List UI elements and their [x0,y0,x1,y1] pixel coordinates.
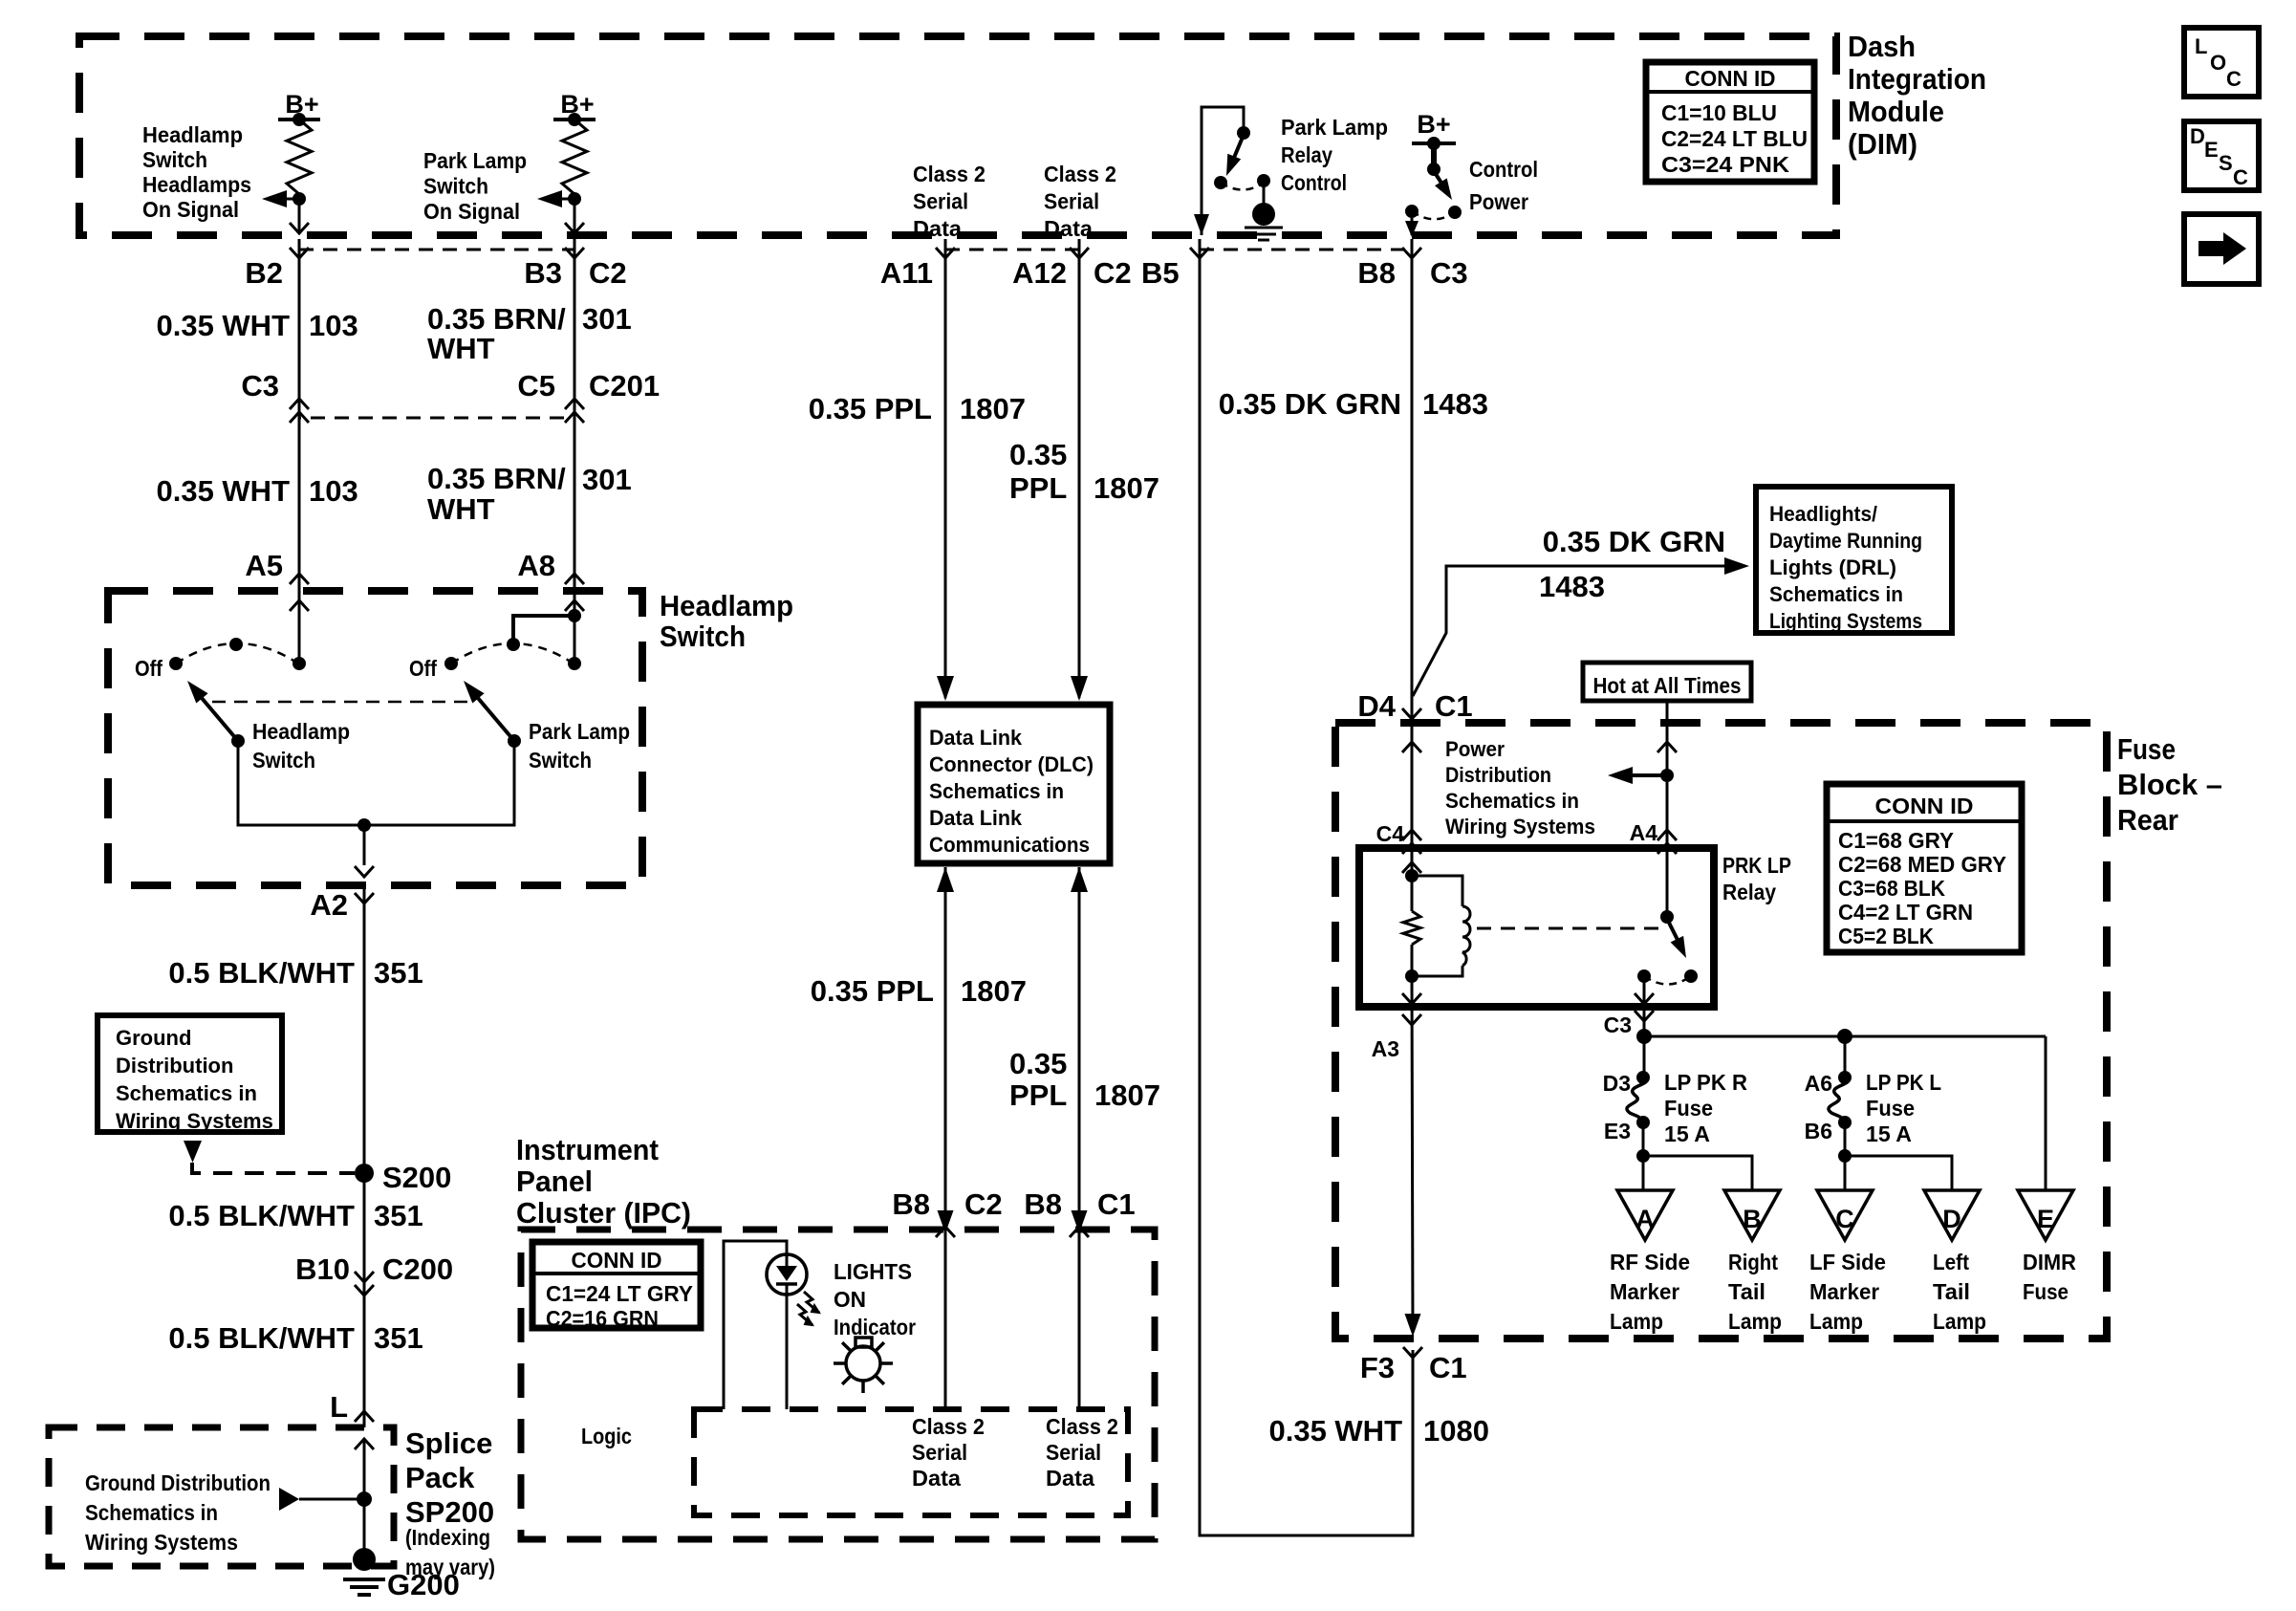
branch wire to DRL reference with arrow [1413,566,1726,696]
logic inner dashed box [694,1409,1128,1515]
svg-text:C200: C200 [382,1252,453,1286]
switch blade: headlamp switch [196,691,238,741]
svg-text:CONN ID: CONN ID [1875,794,1974,818]
svg-text:C201: C201 [589,369,660,403]
relay coil branch wires [1402,862,1421,873]
thin dashed connector line at A11/A12 [945,249,1079,251]
ground symbol: relay control reference [1263,181,1266,205]
wire: relay A3 output down to fuse block F3 [1402,1014,1421,1025]
svg-text:B10: B10 [295,1252,350,1286]
connector table: IPC CONN ID [532,1242,701,1328]
svg-text:E: E [2037,1205,2054,1233]
svg-text:B+: B+ [1417,110,1450,139]
wire: 0.5 BLK/WHT 351 from A2 to S200 [363,889,366,1173]
svg-text:C3: C3 [1604,1012,1632,1037]
svg-text:B: B [1743,1205,1762,1233]
svg-text:0.5 BLK/WHT: 0.5 BLK/WHT [168,956,355,990]
mechanical link dashed line between switches [212,701,473,704]
svg-text:1807: 1807 [960,392,1026,425]
LED emission arrows [804,1292,819,1313]
output triangle E [2018,1190,2073,1240]
svg-text:A8: A8 [517,549,555,582]
svg-text:CONN ID: CONN ID [1685,66,1776,91]
connector chevrons at C200 [355,1272,374,1282]
switch blade: relay control [1231,135,1244,164]
relay coil [1412,876,1462,906]
switch: Control Power inside DIM [1431,143,1437,169]
svg-text:0.5 BLK/WHT: 0.5 BLK/WHT [168,1199,355,1232]
svg-text:B8: B8 [1357,256,1396,290]
module box: Instrument Panel Cluster dashed outline [521,1230,1155,1539]
connector: inline dashed connector box C200/C201 between DIM and headlamp switch [299,250,574,418]
contact dots and throw arc: control power switch [1405,205,1419,218]
svg-text:1807: 1807 [1094,1078,1160,1112]
svg-text:B8: B8 [892,1187,930,1221]
svg-text:0.35 WHT: 0.35 WHT [1268,1414,1402,1448]
svg-text:0.35 WHT: 0.35 WHT [156,474,290,508]
LED symbol: lights on indicator [767,1254,807,1295]
LED indicator circuit wires [724,1241,787,1409]
wire: class 2 serial data A12 to DLC [1070,248,1089,258]
wire: DIMR fuse feed [2045,1036,2047,1190]
svg-text:A4: A4 [1630,820,1658,845]
component box: splice pack dashed outline [49,1427,394,1566]
svg-text:301: 301 [582,463,632,496]
svg-text:E3: E3 [1604,1119,1631,1143]
wire: L-link from A8 to park lamp contacts [568,609,581,622]
svg-text:Logic: Logic [581,1424,632,1448]
reference box: Data Link Connector (DLC) Schematics in Data Link Communications [918,705,1110,863]
relay contact dots and throw arc [1637,969,1651,983]
svg-text:1807: 1807 [961,974,1027,1008]
resistor: headlamp switch pull-up [287,120,312,194]
resistor: park lamp switch pull-up [562,120,587,194]
fuse: LP PK L 15A (A6-B6) [1844,1036,1847,1078]
wire: relay output C3 to fuse bus [1635,1011,1654,1021]
svg-text:B6: B6 [1805,1119,1832,1143]
wire: 0.35 WHT 103 lower segment to A5 [298,401,301,664]
ground G200 [353,1548,376,1571]
svg-text:F3: F3 [1360,1351,1395,1384]
svg-text:0.5 BLK/WHT: 0.5 BLK/WHT [168,1321,355,1355]
icon box: DESC [2184,121,2259,190]
svg-text:103: 103 [309,309,358,342]
svg-text:C1: C1 [1429,1351,1467,1384]
wires to triangles C and D [1844,1156,1847,1190]
svg-text:351: 351 [374,1321,423,1355]
component box: Headlamp Switch dashed outline [108,591,642,885]
junction dot on park lamp signal [568,192,581,206]
svg-text:1080: 1080 [1423,1414,1489,1448]
wire: park lamp signal down to DIM edge [574,199,576,233]
wire into splice pack down to G200 [355,1439,374,1449]
wire: class 2 serial data A11 to DLC [936,248,955,258]
relay box: PRK LP Relay [1359,848,1714,1007]
svg-text:301: 301 [582,302,632,336]
icon box: forward arrow [2184,214,2259,284]
svg-text:HeadlampSwitchHeadlampsOn Sign: HeadlampSwitchHeadlampsOn Signal [142,122,251,222]
wire: A5 entry into headlamp switch [290,600,309,611]
module box: Dash Integration Module (DIM) dashed outline [79,36,1836,235]
wire: 0.5 BLK/WHT 351 to splice pack [363,1173,366,1411]
wire: switch commons joined to A2 [238,741,514,825]
svg-text:G200: G200 [387,1568,460,1601]
wire: DLC to IPC B8/C2 [937,867,954,892]
wire: headlamp signal down to DIM edge [298,199,301,233]
svg-text:C3: C3 [1430,256,1468,290]
junction dot on headlamp signal [292,192,306,206]
junction dot under LP PK L fuse [1838,1149,1852,1163]
switch blade: control power [1434,171,1446,190]
switch blade: park lamp switch [472,691,514,741]
output triangle B [1724,1190,1780,1240]
icon box: LOC [2184,28,2259,97]
relay switch pivot and blade [1660,910,1674,924]
svg-text:C5: C5 [517,369,555,403]
svg-text:0.35 DK GRN: 0.35 DK GRN [1219,387,1401,421]
svg-text:D4: D4 [1357,689,1396,723]
svg-text:A6: A6 [1805,1071,1832,1096]
svg-text:A: A [1635,1205,1655,1233]
wire: control power output down to DIM edge [1411,211,1414,235]
contact dots and throw arc: relay control switch [1214,176,1227,189]
wire: headlamp on-signal arrow to left [271,198,299,201]
svg-text:C2: C2 [1094,256,1132,290]
svg-text:1483: 1483 [1539,570,1605,603]
svg-text:C: C [1835,1205,1854,1233]
svg-text:B3: B3 [524,256,562,290]
svg-text:A2: A2 [310,888,348,922]
connector table: fuse block CONN ID [1827,784,2022,952]
svg-text:Off: Off [409,656,437,681]
svg-text:351: 351 [374,1199,423,1232]
wire: park lamp on-signal arrow to left [547,198,574,201]
svg-text:B2: B2 [245,256,283,290]
wire: 0.35 BRN/WHT 301 circuit B3/C2 to C5/C201 [565,248,584,258]
svg-text:L: L [330,1390,348,1424]
pointer triangle below reference box [184,1141,202,1163]
connector chevrons at C3 [290,399,309,409]
wire: Hot at All Times to relay A4 [1666,701,1669,917]
wire: park lamp relay control B5 down and across to fuse block F3 [1190,248,1209,258]
output triangle A [1617,1190,1673,1240]
svg-text:A5: A5 [245,549,283,582]
wire: DLC to IPC B8/C1 [1071,867,1088,892]
svg-text:0.35 DK GRN: 0.35 DK GRN [1543,525,1725,558]
module box: Fuse Block - Rear dashed outline [1335,723,2107,1339]
reference box: Ground Distribution Schematics in Wiring Systems [97,1015,282,1132]
svg-text:B5: B5 [1141,256,1180,290]
svg-text:C2: C2 [964,1187,1003,1221]
svg-text:C2: C2 [589,256,627,290]
svg-text:1483: 1483 [1422,387,1488,421]
fuse: LP PK R 15A (D3-E3) [1643,1036,1646,1078]
svg-text:C1: C1 [1097,1187,1136,1221]
svg-text:1807: 1807 [1094,471,1159,505]
lamp symbol [846,1346,880,1381]
svg-text:0.35 PPL: 0.35 PPL [809,392,932,425]
connector chevrons at C5 [565,399,584,409]
output triangle C [1817,1190,1873,1240]
svg-text:D3: D3 [1603,1071,1631,1096]
output triangle D [1924,1190,1980,1240]
svg-text:0.35 PPL: 0.35 PPL [811,974,934,1008]
svg-text:Off: Off [135,656,162,681]
fuse bus horizontal wire [1644,1035,2046,1038]
wire: B8/C2 into logic [938,1210,954,1233]
power tag box: Hot at All Times [1583,663,1751,701]
dashed leader line to S200 [192,1163,355,1173]
svg-text:D: D [1942,1205,1961,1233]
svg-text:C1: C1 [1435,689,1473,723]
wire: 0.35 DK GRN 1483 from DIM B8 to fuse block D4 [1402,248,1421,258]
svg-text:Hot at All Times: Hot at All Times [1593,673,1742,698]
connector table: DIM CONN ID [1646,62,1814,182]
splice S200 [355,1164,374,1183]
svg-text:103: 103 [309,474,358,508]
svg-text:C4: C4 [1376,821,1405,846]
relay actuation dashed link [1477,927,1658,930]
reference box: Headlights/Daytime Running Lights (DRL) Schematics in Lighting Systems [1756,487,1952,633]
wire: 0.35 WHT 103 circuit B2 to C3 [290,248,309,258]
wire: 0.35 BRN/WHT 301 lower segment to A8 [574,401,576,616]
svg-text:351: 351 [374,956,423,990]
junction dot and arrow to power distribution [1660,769,1674,782]
svg-text:0.35 WHT: 0.35 WHT [156,309,290,342]
svg-text:C3: C3 [241,369,279,403]
svg-text:A3: A3 [1372,1036,1399,1061]
switch: Park Lamp Relay Control driver inside DIM [1202,107,1244,235]
relay resistor [1403,911,1420,945]
svg-text:S200: S200 [382,1161,451,1194]
wire: relay common down to C3 [1402,993,1421,1004]
wire: D4/C1 into fuse block to relay [1402,742,1421,752]
junction dot under LP PK R fuse [1636,1149,1650,1163]
svg-text:0.35PPL: 0.35PPL [1009,438,1067,505]
svg-text:B8: B8 [1024,1187,1062,1221]
wire: B8/C1 into logic [1072,1210,1088,1233]
wire: relay output down [1643,976,1646,1036]
pointer triangle to splice wire [279,1488,299,1511]
wires to triangles A and B [1642,1156,1645,1190]
svg-text:CONN ID: CONN ID [572,1248,662,1273]
svg-text:0.35PPL: 0.35PPL [1009,1047,1067,1112]
svg-text:A12: A12 [1012,256,1067,290]
svg-text:A11: A11 [880,256,933,290]
wire: A8 entry into park lamp side [565,600,584,611]
